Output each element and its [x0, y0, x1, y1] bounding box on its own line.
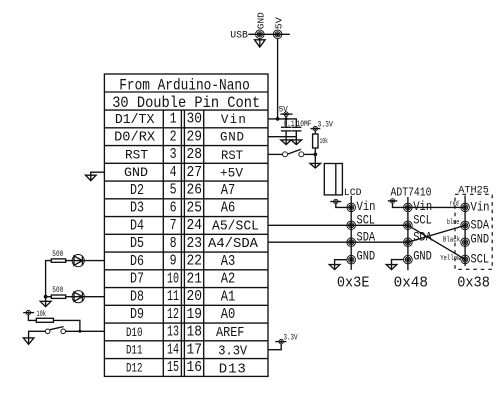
- terminal ADT Vin supply: [388, 199, 398, 203]
- junction terminal/Vin wire: [285, 117, 288, 120]
- wire ADT GND hook: [392, 260, 404, 270]
- pin ATH SDA: [461, 221, 470, 230]
- svg-text:30: 30: [187, 112, 203, 128]
- resistor R1 500: [51, 259, 65, 262]
- svg-text:ADT7410: ADT7410: [391, 186, 432, 199]
- svg-text:A0: A0: [221, 307, 236, 323]
- svg-text:A3: A3: [221, 254, 236, 270]
- svg-text:SCL: SCL: [471, 252, 490, 266]
- wire R2 left stub: [46, 296, 52, 298]
- ground below reset node: [310, 163, 321, 168]
- wire SDA bus: [268, 241, 408, 243]
- svg-text:USB: USB: [230, 29, 248, 41]
- svg-text:Vin: Vin: [413, 200, 432, 214]
- svg-text:27: 27: [187, 165, 203, 181]
- svg-text:A2: A2: [221, 272, 236, 288]
- svg-text:D0/RX: D0/RX: [114, 130, 156, 146]
- svg-text:Vin: Vin: [357, 200, 376, 214]
- svg-text:A1: A1: [221, 289, 236, 305]
- pin row 13/18 D10 - AREF: [126, 325, 244, 341]
- resistor R2 500: [51, 295, 65, 298]
- svg-text:GND: GND: [471, 233, 490, 247]
- wire 5V terminal drop: [285, 116, 287, 127]
- wire R3 bottom to ground: [314, 148, 316, 168]
- svg-text:2: 2: [170, 129, 177, 145]
- svg-text:3: 3: [170, 147, 177, 163]
- svg-text:30 Double Pin Cont: 30 Double Pin Cont: [112, 94, 260, 112]
- svg-text:5: 5: [170, 183, 177, 199]
- svg-text:D4: D4: [130, 218, 144, 234]
- ground at GND row: [86, 175, 97, 180]
- ground ADT: [386, 265, 397, 270]
- svg-text:A4/SDA: A4/SDA: [208, 236, 259, 252]
- svg-text:Vin: Vin: [471, 200, 490, 214]
- svg-text:+5V: +5V: [220, 166, 243, 180]
- pin LCD SCL: [347, 221, 356, 230]
- svg-text:Yellow: Yellow: [440, 255, 461, 263]
- svg-text:0x38: 0x38: [457, 274, 490, 291]
- junction D10 node: [78, 330, 81, 333]
- connector pin USB 5V: [273, 30, 282, 39]
- svg-text:25: 25: [187, 200, 203, 216]
- svg-text:A5/SCL: A5/SCL: [212, 218, 259, 234]
- svg-text:SDA: SDA: [471, 218, 490, 232]
- svg-text:0x3E: 0x3E: [337, 274, 370, 291]
- terminal 3.3V (bottom): [275, 339, 286, 343]
- svg-text:D7: D7: [130, 272, 144, 288]
- wire switch to ground: [29, 331, 46, 344]
- ATH25 dashed outline: [455, 194, 492, 269]
- pin row 2/29 D0/RX - GND: [114, 129, 244, 145]
- terminal LCD Vin supply: [330, 199, 341, 203]
- wire D6 row to LED1: [66, 260, 105, 262]
- wire LCD GND hook: [335, 260, 347, 270]
- ground switch: [23, 338, 34, 344]
- pin LCD SDA: [347, 238, 356, 247]
- svg-text:11: 11: [167, 289, 179, 305]
- resistor R4 10k: [36, 318, 53, 322]
- svg-text:14: 14: [167, 342, 179, 358]
- svg-text:GND: GND: [124, 166, 148, 180]
- svg-text:LCD: LCD: [344, 187, 362, 199]
- switch SW2 (D10): [45, 327, 65, 334]
- connector table J1 outline and grid: [104, 74, 268, 376]
- svg-text:26: 26: [187, 183, 203, 199]
- pin row 5/26 D2 - A7: [130, 183, 235, 199]
- wire SCL diagonal to ATH25: [408, 225, 465, 259]
- wire SDA diagonal to ATH25: [408, 225, 465, 242]
- svg-text:7: 7: [170, 218, 177, 234]
- svg-text:23: 23: [187, 236, 203, 252]
- wire 3.3V row stub: [268, 344, 281, 350]
- svg-text:GND: GND: [357, 250, 376, 264]
- wire terminal to R4: [28, 315, 36, 321]
- pin row 7/24 D4 - A5/SCL: [130, 218, 259, 234]
- wire LCD Vin supply to pin: [336, 204, 351, 208]
- svg-text:9: 9: [170, 254, 177, 270]
- svg-text:12: 12: [167, 307, 179, 323]
- ground under C1: [281, 140, 292, 145]
- resistor R3 10k: [313, 134, 318, 148]
- wire R1 left bend: [46, 261, 52, 297]
- wire 3.3V to R3: [314, 131, 316, 134]
- svg-text:6: 6: [170, 200, 177, 216]
- pin row 8/23 D5 - A4/SDA: [130, 236, 259, 252]
- svg-text:RST: RST: [125, 148, 148, 162]
- svg-text:15: 15: [167, 360, 179, 376]
- svg-text:D10: D10: [126, 325, 143, 340]
- pin ADT GND: [404, 255, 413, 264]
- LED D1: [72, 255, 84, 267]
- svg-text:19: 19: [187, 307, 203, 323]
- svg-text:D3: D3: [130, 201, 144, 217]
- wire ADT pin column: [407, 197, 409, 270]
- junction 5V/Vin: [276, 117, 280, 121]
- svg-text:From Arduino-Nano: From Arduino-Nano: [119, 77, 250, 95]
- svg-text:D5: D5: [130, 236, 144, 252]
- wire LCD pin column: [350, 196, 352, 270]
- svg-text:D1/TX: D1/TX: [115, 112, 155, 128]
- pin row 3/28 RST - RST: [125, 147, 243, 163]
- svg-text:A7: A7: [221, 183, 236, 199]
- svg-text:17: 17: [187, 342, 203, 358]
- svg-text:1: 1: [170, 112, 177, 128]
- pin LCD Vin: [347, 203, 356, 212]
- wire to LED ground: [45, 297, 47, 307]
- svg-text:3.3V: 3.3V: [218, 343, 248, 359]
- pin ADT SDA: [404, 238, 413, 247]
- svg-text:28: 28: [187, 147, 203, 163]
- wire GND row hook (left): [91, 172, 105, 180]
- svg-text:GND: GND: [220, 131, 244, 145]
- svg-text:20: 20: [187, 289, 203, 305]
- svg-text:AREF: AREF: [216, 325, 245, 341]
- svg-text:Black: Black: [443, 237, 460, 245]
- terminal pullup (10k): [23, 310, 34, 314]
- svg-text:D13: D13: [219, 362, 246, 378]
- svg-text:D11: D11: [126, 343, 143, 358]
- switch SW1 (reset): [283, 149, 304, 157]
- svg-text:13: 13: [167, 325, 179, 341]
- svg-text:500: 500: [52, 286, 63, 295]
- wire USB bus: [248, 33, 289, 35]
- svg-text:3.3V: 3.3V: [284, 334, 298, 343]
- ground under C2: [291, 140, 302, 145]
- LED D2: [72, 291, 84, 303]
- pin ADT Vin: [404, 203, 413, 212]
- pin ATH SCL: [461, 255, 470, 264]
- table header labels: [112, 77, 260, 113]
- svg-text:4: 4: [170, 165, 177, 181]
- pin ATH Vin: [461, 203, 470, 212]
- svg-text:D6: D6: [130, 254, 144, 270]
- capacitor C2 10MF: [292, 127, 302, 144]
- svg-text:10: 10: [167, 271, 179, 287]
- svg-text:A6: A6: [221, 201, 236, 217]
- svg-text:blue: blue: [447, 219, 460, 227]
- wire ADT Vin bus to ATH25: [393, 203, 466, 207]
- wire ATH pin column: [464, 196, 466, 267]
- svg-text:10MF: 10MF: [297, 120, 312, 129]
- wire D8 row to LED2: [66, 296, 105, 298]
- junction LED ground node: [44, 295, 48, 299]
- svg-text:D8: D8: [130, 289, 144, 305]
- svg-text:SCL: SCL: [413, 214, 432, 228]
- svg-text:RST: RST: [221, 149, 243, 163]
- ground LED node: [40, 301, 51, 306]
- pin row 11/20 D8 - A1: [130, 289, 235, 305]
- svg-text:red: red: [449, 201, 458, 209]
- wire GND row to caps: [268, 136, 296, 138]
- junction reset node: [313, 153, 317, 157]
- svg-text:24: 24: [187, 218, 203, 234]
- pin row 4/27 GND - +5V: [124, 165, 243, 181]
- svg-text:5V: 5V: [273, 17, 284, 29]
- svg-text:29: 29: [187, 129, 203, 145]
- pin row 15/16 D12 - D13: [126, 360, 246, 378]
- terminal 3.3V: [311, 126, 321, 130]
- svg-text:GND: GND: [256, 12, 267, 29]
- pin row 10/21 D7 - A2: [130, 271, 235, 287]
- terminal 5V: [280, 112, 292, 116]
- wire RST row to switch: [268, 153, 283, 155]
- svg-text:16: 16: [187, 360, 203, 376]
- svg-text:GND: GND: [413, 250, 432, 264]
- pin ADT SCL: [404, 221, 413, 230]
- LCD module box: [324, 164, 342, 195]
- svg-text:D2: D2: [130, 183, 144, 199]
- svg-text:5V: 5V: [279, 104, 289, 114]
- pin row 6/25 D3 - A6: [130, 200, 235, 216]
- svg-text:8: 8: [170, 236, 177, 252]
- svg-text:10k: 10k: [320, 138, 329, 146]
- svg-text:18: 18: [187, 325, 203, 341]
- pin LCD GND: [347, 255, 356, 264]
- wire D10 row: [66, 330, 105, 332]
- pin row 14/17 D11 - 3.3V: [126, 342, 248, 359]
- svg-text:D12: D12: [126, 360, 143, 375]
- svg-text:Vin: Vin: [221, 113, 246, 127]
- svg-text:0x48: 0x48: [394, 274, 428, 291]
- wire SCL bus: [268, 224, 408, 226]
- connector pin USB GND: [255, 30, 264, 39]
- pin row 1/30 D1/TX - Vin: [115, 112, 246, 128]
- pin ATH GND: [461, 238, 470, 247]
- svg-text:D9: D9: [130, 307, 144, 323]
- ground below USB GND: [255, 39, 266, 48]
- svg-text:22: 22: [187, 254, 203, 270]
- pin row 9/22 D6 - A3: [130, 254, 235, 270]
- capacitor C1 0.1: [281, 127, 291, 144]
- svg-text:21: 21: [187, 271, 203, 287]
- svg-text:500: 500: [52, 250, 63, 259]
- wire switch to reset node: [304, 153, 316, 155]
- pin row 12/19 D9 - A0: [130, 307, 235, 323]
- wire 5V vertical to Vin row: [277, 39, 279, 119]
- ground LCD: [329, 265, 340, 270]
- wire Vin row to caps: [268, 119, 296, 127]
- wire R4 to D10 node: [53, 320, 80, 331]
